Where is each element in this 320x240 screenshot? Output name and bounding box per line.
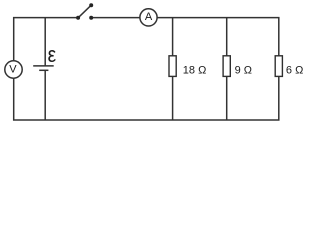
battery short plate — [39, 69, 48, 71]
switch lever tip — [89, 3, 93, 7]
wire left vertical lower + bottom horizontal + R3 lower — [14, 76, 279, 120]
wire battery vertical lower — [44, 70, 46, 120]
wire switch to ammeter — [91, 17, 140, 19]
svg-text:ε: ε — [48, 43, 57, 68]
wire ammeter to top-right corner + R3 upper — [157, 18, 279, 56]
resistor R2 body — [223, 56, 230, 77]
svg-text:V: V — [9, 63, 17, 75]
voltmeter V circle — [5, 61, 22, 78]
wire top-left horizontal + left vertical upper — [14, 18, 78, 61]
switch contact right — [89, 16, 93, 20]
battery long plate — [33, 65, 54, 67]
switch contact left — [76, 16, 80, 20]
svg-text:6 Ω: 6 Ω — [286, 64, 303, 76]
wire branch R2 lower — [226, 76, 228, 120]
wire branch R2 upper — [226, 18, 228, 56]
ammeter A circle — [140, 9, 157, 26]
svg-text:9 Ω: 9 Ω — [235, 64, 252, 76]
resistor R1 body — [169, 56, 176, 77]
resistor R3 body — [275, 56, 282, 77]
wire branch R1 lower — [172, 76, 174, 120]
svg-text:A: A — [145, 11, 153, 23]
wire branch R1 upper — [172, 18, 174, 56]
wire battery vertical upper — [44, 18, 46, 66]
switch S1 lever — [78, 5, 91, 18]
svg-text:18 Ω: 18 Ω — [183, 64, 207, 76]
